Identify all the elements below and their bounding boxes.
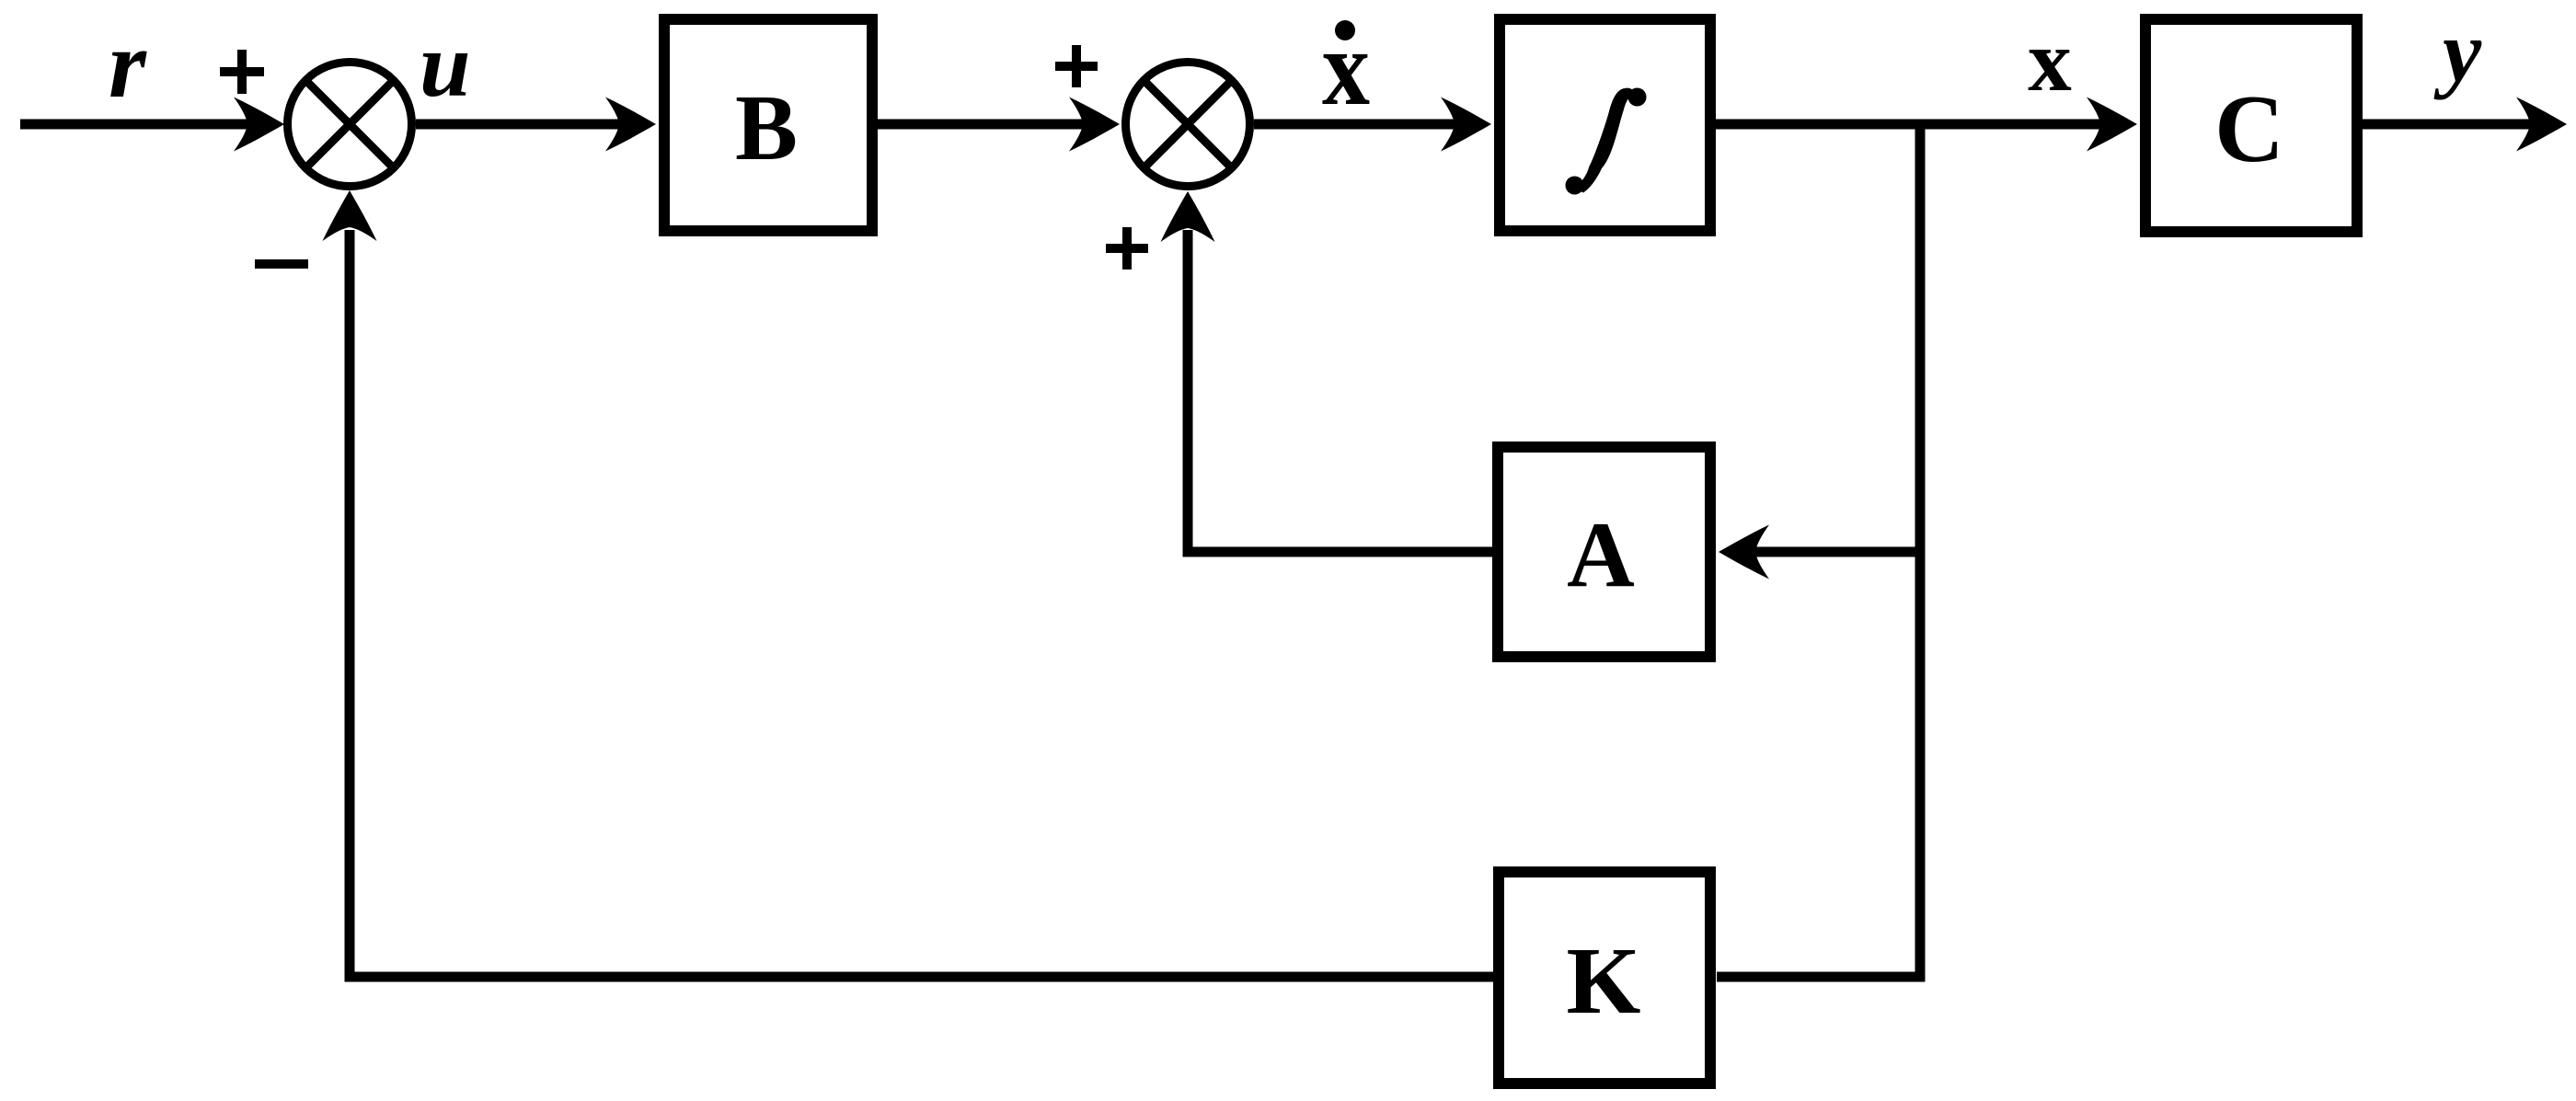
svg-text:x: x [2028, 12, 2072, 109]
block K [1499, 872, 1710, 1084]
wire S2 to integrator [1254, 120, 1458, 130]
block B [664, 19, 872, 231]
wire branch from x down to K [1717, 120, 1920, 977]
wire integrator to C [1716, 120, 2104, 130]
wire K output to S1 bottom [350, 230, 1493, 977]
svg-text:B: B [735, 76, 798, 180]
svg-text:C: C [2214, 75, 2284, 182]
wire branch to A input [1753, 547, 1915, 557]
svg-text:r: r [109, 10, 147, 118]
block A [1498, 447, 1710, 657]
svg-text:K: K [1567, 928, 1641, 1034]
summer S2 [1126, 63, 1250, 187]
plus sign at summer S1 input [220, 50, 264, 94]
plus sign at summer S2 left input [1055, 45, 1098, 87]
block C [2145, 19, 2357, 232]
block integrator [1500, 19, 1710, 231]
svg-text:A: A [1567, 503, 1635, 607]
summer S1 [288, 63, 412, 187]
wire C to output y [2363, 120, 2534, 130]
wire r input [20, 120, 254, 130]
wire A output to S2 bottom [1188, 230, 1492, 552]
wire S1 to B [416, 120, 623, 130]
minus sign at summer S1 feedback input [255, 259, 308, 269]
svg-text:u: u [420, 14, 471, 116]
wire B to S2 [878, 120, 1087, 130]
plus sign at summer S2 bottom input [1106, 227, 1148, 270]
